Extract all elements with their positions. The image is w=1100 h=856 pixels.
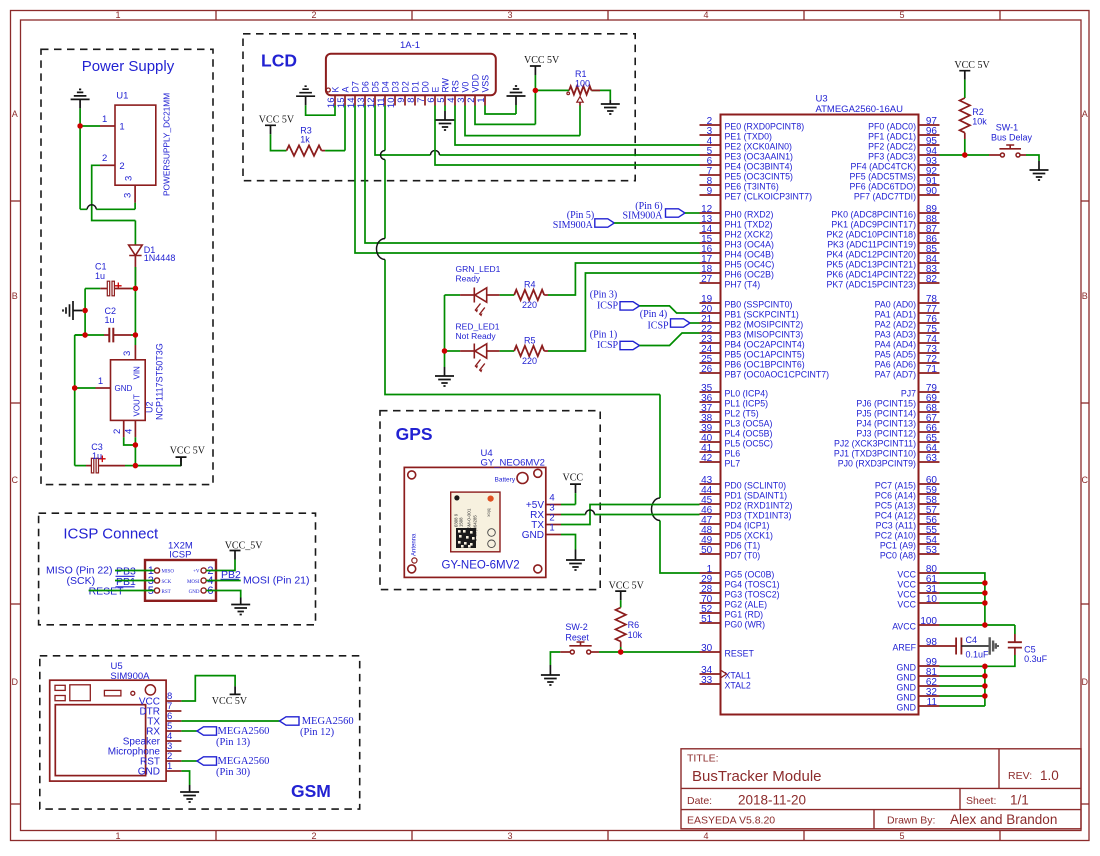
svg-text:GND: GND <box>138 766 160 777</box>
wire junction to U1 pin 1 <box>80 125 100 127</box>
svg-text:PE7 (CLKOICP3INT7): PE7 (CLKOICP3INT7) <box>725 191 813 201</box>
svg-text:PK0 (ADC8PCINT16): PK0 (ADC8PCINT16) <box>831 209 916 219</box>
svg-text:AREF: AREF <box>893 642 917 652</box>
wire GPS RX to U3 PD3 pin 46 <box>561 514 700 516</box>
wire GPS TX to U3 PD2 pin 45 <box>561 505 700 525</box>
svg-text:PK3 (ADC11PCINT19): PK3 (ADC11PCINT19) <box>827 239 916 249</box>
svg-text:RST: RST <box>162 590 171 595</box>
svg-text:PA3 (AD3): PA3 (AD3) <box>875 329 916 339</box>
svg-text:42: 42 <box>701 453 713 464</box>
wire U3 PF3 pin 94 to switch SW-1 <box>940 154 990 156</box>
svg-text:PD5 (XCK1): PD5 (XCK1) <box>725 530 773 540</box>
svg-text:PG2 (ALE): PG2 (ALE) <box>725 599 768 609</box>
svg-text:SIM900A: SIM900A <box>110 671 150 682</box>
svg-text:2: 2 <box>119 161 124 172</box>
U4 chip QR code block <box>456 528 476 548</box>
capacitor C1 1u (polarized) <box>107 281 109 296</box>
svg-text:4: 4 <box>703 10 708 20</box>
svg-text:10k: 10k <box>628 630 643 640</box>
svg-text:PJ1 (TXD3PCINT10): PJ1 (TXD3PCINT10) <box>834 448 916 458</box>
svg-text:SIM900A: SIM900A <box>553 220 594 231</box>
net flag MEGA2560 (Pin 30) <box>197 757 217 765</box>
svg-text:blox: blox <box>487 509 492 518</box>
svg-text:GND: GND <box>522 530 544 541</box>
svg-text:PF5 (ADC5TMS): PF5 (ADC5TMS) <box>850 171 917 181</box>
svg-text:PD7 (T0): PD7 (T0) <box>725 550 761 560</box>
power flag VCC 5V (power supply output) <box>176 457 187 466</box>
svg-text:NCP1117ST50T3G: NCP1117ST50T3G <box>155 343 165 420</box>
svg-text:PF0 (ADC0): PF0 (ADC0) <box>868 121 916 131</box>
svg-text:PJ3 (PCINT12): PJ3 (PCINT12) <box>856 428 916 438</box>
svg-text:XTAL1: XTAL1 <box>725 670 751 680</box>
ICSP pin 4 circle <box>201 578 206 583</box>
svg-text:ICSP: ICSP <box>169 550 191 561</box>
wire ICSP pin4 to MOSI <box>206 580 241 582</box>
wire D4 down to U3 PG5 pin 1 (long route) <box>385 106 700 574</box>
svg-text:3: 3 <box>124 176 135 181</box>
U5 board small circle <box>131 691 135 695</box>
wire C5 bottom to GND bus <box>985 655 1015 666</box>
svg-text:PG5 (OC0B): PG5 (OC0B) <box>725 569 775 579</box>
wire left rail to U2 GND <box>75 335 96 466</box>
svg-text:PB6 (OC1BPCINT6): PB6 (OC1BPCINT6) <box>725 359 805 369</box>
svg-text:PC4 (A12): PC4 (A12) <box>875 510 916 520</box>
svg-text:PB0 (SSPCINT0): PB0 (SSPCINT0) <box>725 299 793 309</box>
svg-text:5: 5 <box>899 10 904 20</box>
wire flag pin5 to chip <box>614 222 699 224</box>
U4 mounting hole top-left <box>408 471 416 479</box>
svg-text:PC0 (A8): PC0 (A8) <box>880 550 916 560</box>
U5 RF shield inner rect <box>55 705 145 776</box>
ICSP pin 5 circle <box>154 588 159 593</box>
wire RED LED anode <box>445 350 461 352</box>
junction R2/PF3/SW-1 <box>962 152 967 157</box>
U5 board small rect 1 <box>55 685 65 690</box>
svg-text:PH2 (XCK2): PH2 (XCK2) <box>725 229 773 239</box>
svg-text:1: 1 <box>115 10 120 20</box>
svg-text:30: 30 <box>701 643 713 654</box>
svg-text:PE6 (T3INT6): PE6 (T3INT6) <box>725 181 779 191</box>
svg-text:53: 53 <box>926 545 938 556</box>
GPS dashed box <box>380 411 600 590</box>
U4 mounting hole bottom-left <box>408 565 416 573</box>
wire hop RX line over TX vertical <box>586 510 595 515</box>
svg-text:RS: RS <box>450 80 460 92</box>
wire C2 left <box>85 334 104 336</box>
svg-text:PC7 (A15): PC7 (A15) <box>875 480 916 490</box>
svg-text:U2: U2 <box>145 401 155 413</box>
title block <box>681 749 1081 829</box>
svg-text:PJ7: PJ7 <box>901 388 916 398</box>
junction at U1 pin1 <box>77 123 82 128</box>
svg-text:4: 4 <box>124 429 135 434</box>
svg-text:PF6 (ADC6TDO): PF6 (ADC6TDO) <box>850 181 917 191</box>
svg-text:PG4 (TOSC1): PG4 (TOSC1) <box>725 579 780 589</box>
U2 pin 4 stub (bottom) <box>134 420 136 437</box>
svg-text:PH0 (RXD2): PH0 (RXD2) <box>725 209 774 219</box>
svg-text:10: 10 <box>926 594 938 605</box>
svg-text:R5: R5 <box>524 336 536 346</box>
U4 pin +5V <box>546 504 561 506</box>
svg-text:LCD: LCD <box>261 51 297 71</box>
svg-text:PK5 (ADC13PCINT21): PK5 (ADC13PCINT21) <box>827 259 917 269</box>
wire RW to ground <box>444 106 446 112</box>
U5 pin stubs and numbers <box>166 691 181 772</box>
ICSP pin 6 circle <box>201 588 206 593</box>
wire K to ground <box>306 105 335 115</box>
svg-text:1.0: 1.0 <box>1040 768 1059 783</box>
svg-text:PA2 (AD2): PA2 (AD2) <box>875 319 916 329</box>
wire D5 down to U3 PE3 pin 5 <box>375 106 700 156</box>
resistor R2 10k <box>960 98 970 133</box>
wire junction to U3 RESET pin 30 <box>621 651 700 653</box>
wire R6 to junction <box>620 642 622 648</box>
junction GND bus 99 <box>982 664 987 669</box>
LCD dashed box <box>243 34 635 181</box>
resistor R3 1k <box>287 145 322 155</box>
svg-text:1: 1 <box>476 98 487 103</box>
svg-text:(Pin 5): (Pin 5) <box>567 210 595 221</box>
capacitor C2 1u <box>109 328 113 343</box>
svg-text:1/1: 1/1 <box>1010 793 1029 808</box>
svg-text:VCC 5V: VCC 5V <box>609 581 645 592</box>
ground below SW-2 <box>541 665 560 685</box>
U5 board wide small rect <box>104 690 121 696</box>
ground for U1 pin 1 (inverted) <box>71 89 90 108</box>
wire RS down to U3 PE2 pin 4 <box>455 106 700 146</box>
svg-text:1u: 1u <box>105 315 115 325</box>
ICSP pin 3 circle <box>154 578 159 583</box>
svg-text:A: A <box>340 87 350 93</box>
svg-text:PH3 (OC4A): PH3 (OC4A) <box>725 239 774 249</box>
svg-text:R2: R2 <box>972 107 984 117</box>
svg-text:Sheet:: Sheet: <box>966 795 996 807</box>
svg-text:PG1 (RD): PG1 (RD) <box>725 609 764 619</box>
wire hop D4 vertical over D5 line <box>381 151 386 160</box>
svg-text:0.3uF: 0.3uF <box>1024 654 1048 664</box>
svg-text:D4: D4 <box>380 81 390 92</box>
op-amp U3 chip body ATMEGA2560-16AU <box>721 115 919 715</box>
wire C4 to ground arrow <box>961 645 989 647</box>
svg-text:Bus Delay: Bus Delay <box>991 133 1033 143</box>
wire GRN to RED LED vertical <box>444 295 446 351</box>
svg-text:PB4 (OC2APCINT4): PB4 (OC2APCINT4) <box>725 339 805 349</box>
wire C1 left to ground rail <box>85 288 100 290</box>
svg-text:PC6 (A14): PC6 (A14) <box>875 490 916 500</box>
wire U2 pin2 to pin4 join <box>124 437 136 445</box>
svg-text:ICSP: ICSP <box>597 300 619 311</box>
svg-text:PK6 (ADC14PCINT22): PK6 (ADC14PCINT22) <box>827 269 917 279</box>
svg-text:PK7 (ADC15PCINT23): PK7 (ADC15PCINT23) <box>827 279 917 289</box>
svg-text:PD6 (T1): PD6 (T1) <box>725 540 761 550</box>
svg-text:2: 2 <box>102 153 107 164</box>
svg-text:D7: D7 <box>350 81 360 92</box>
junction pins 2-4 <box>133 442 138 447</box>
svg-text:AVCC: AVCC <box>892 621 916 631</box>
U3 XTAL1 clock marker <box>721 670 727 678</box>
svg-text:PA5 (AD5): PA5 (AD5) <box>875 349 916 359</box>
wire C2 junction to U2 VIN pin 3 <box>134 335 136 345</box>
capacitor C4 0.1uF <box>956 638 961 655</box>
svg-text:PH1 (TXD2): PH1 (TXD2) <box>725 219 773 229</box>
wire flag pin1 to chip pin 22 <box>640 333 700 346</box>
ground at LCD pin RW <box>436 111 455 130</box>
wire left rail corner at C2 <box>75 334 85 336</box>
svg-text:(Pin 13): (Pin 13) <box>216 737 251 748</box>
junction C2 left <box>82 332 87 337</box>
wire hop at x660 over GPS RX/TX lines (big arc) <box>652 498 661 521</box>
svg-text:GND: GND <box>896 702 916 712</box>
power flag VCC 5V for GSM (inverted) <box>230 686 241 694</box>
U2 pin 2 stub (bottom) <box>123 420 125 437</box>
1A-1 pin names (rotated) <box>330 74 490 93</box>
capacitor C3 1u (polarized) <box>91 458 93 473</box>
wire D6 down to U3 PH3 pin 15 <box>365 106 700 244</box>
wire VSS to ground <box>485 105 516 114</box>
junction D1/C1 <box>133 286 138 291</box>
svg-text:PH4 (OC4B): PH4 (OC4B) <box>725 249 774 259</box>
wire down to C3 row <box>134 445 136 466</box>
junction GND bus 81 <box>982 673 987 678</box>
wire C2 right to junction <box>113 334 131 336</box>
svg-text:D3: D3 <box>390 81 400 92</box>
wire R4 to U3 PH5 pin 17 <box>544 294 548 296</box>
junction dots overlay <box>77 123 82 128</box>
U4 GPS chip sub-module <box>451 492 500 552</box>
ground right of R1 <box>601 100 620 114</box>
svg-text:PE1 (TXD0): PE1 (TXD0) <box>725 131 772 141</box>
U4 battery circle and label <box>517 473 528 484</box>
ICSP pin 1 circle <box>154 568 159 573</box>
svg-text:VSS: VSS <box>480 75 490 93</box>
svg-text:R6: R6 <box>628 620 640 630</box>
wire flag pin4 to chip pin 21 <box>690 322 700 324</box>
wire PB1 to ICSP pin3 <box>115 580 154 582</box>
svg-text:RESET: RESET <box>725 648 755 658</box>
svg-text:PE2 (XCK0AIN0): PE2 (XCK0AIN0) <box>725 141 793 151</box>
U4 chip orange dot <box>488 496 494 502</box>
svg-text:Power Supply: Power Supply <box>82 58 175 75</box>
U4 mounting hole top-right <box>534 469 542 477</box>
svg-text:C4: C4 <box>966 635 978 645</box>
wire R5 to U3 PH6 pin 18 <box>544 350 548 352</box>
svg-text:PF1 (ADC1): PF1 (ADC1) <box>868 131 916 141</box>
ground right of SW-1 <box>1030 161 1049 180</box>
svg-text:11: 11 <box>927 697 938 708</box>
svg-text:+V: +V <box>193 570 200 575</box>
svg-text:1N4448: 1N4448 <box>144 253 176 263</box>
svg-text:GND: GND <box>896 692 916 702</box>
svg-text:D: D <box>12 677 19 687</box>
svg-text:PC1 (A9): PC1 (A9) <box>880 540 916 550</box>
svg-text:9: 9 <box>707 186 713 197</box>
wire hop D4 vertical over PH3/PH4 lines (big arc) <box>377 239 386 260</box>
wire R3 to LCD pin A <box>322 150 326 152</box>
svg-text:PC3 (A11): PC3 (A11) <box>876 520 916 530</box>
wire SW-1 to ground <box>1020 154 1026 156</box>
svg-text:PC5 (A13): PC5 (A13) <box>875 500 916 510</box>
svg-text:VCC 5V: VCC 5V <box>524 55 560 66</box>
junction C3 right <box>133 463 138 468</box>
svg-text:PK4 (ADC12PCINT20): PK4 (ADC12PCINT20) <box>827 249 917 259</box>
svg-text:PA4 (AD4): PA4 (AD4) <box>875 339 916 349</box>
svg-text:VOUT: VOUT <box>133 394 142 416</box>
svg-text:10k: 10k <box>972 117 987 127</box>
svg-text:PL1 (ICP5): PL1 (ICP5) <box>725 398 769 408</box>
wire GRN LED anode <box>445 294 461 296</box>
wire U5 RST to MEGA2560 flag <box>181 760 197 762</box>
wire U1 pin2 down <box>92 165 136 220</box>
svg-text:PB2 (MOSIPCINT2): PB2 (MOSIPCINT2) <box>725 319 804 329</box>
svg-text:Antenna: Antenna <box>412 533 418 556</box>
net flag MEGA2560 (Pin 13) <box>197 727 217 735</box>
svg-text:(Pin 30): (Pin 30) <box>216 767 251 778</box>
svg-text:2: 2 <box>311 10 316 20</box>
svg-text:MISO: MISO <box>162 570 175 575</box>
junction VCC/R1 <box>533 88 538 93</box>
svg-text:SW-1: SW-1 <box>996 122 1018 132</box>
wire D7 down to U3 PH4 pin 16 <box>355 106 700 254</box>
wire U1 pin3 to diode D1 <box>134 221 136 246</box>
wire PB3 to ICSP pin1 <box>115 570 154 572</box>
svg-text:PL5 (OC5C): PL5 (OC5C) <box>725 438 773 448</box>
svg-text:GY-NEO-6MV2: GY-NEO-6MV2 <box>442 560 520 572</box>
svg-text:B: B <box>12 291 18 301</box>
wire RESET to ICSP pin5 <box>89 590 155 592</box>
svg-text:1u: 1u <box>95 271 105 281</box>
potentiometer R1 100 <box>569 86 591 94</box>
svg-text:BusTracker Module: BusTracker Module <box>692 768 822 785</box>
svg-text:VCC 5V: VCC 5V <box>170 446 206 457</box>
U4 pin TX <box>546 524 561 526</box>
svg-text:PJ6 (PCINT15): PJ6 (PCINT15) <box>856 398 916 408</box>
svg-text:PD0 (SCLINT0): PD0 (SCLINT0) <box>725 480 787 490</box>
wire D1 to C1 junction <box>134 256 136 289</box>
wire U5 TX to MEGA2560 flag <box>181 720 279 722</box>
switch SW-2 pushbutton <box>570 650 574 654</box>
switch SW-1 pushbutton <box>1000 153 1004 157</box>
resistor R6 10k <box>616 608 626 642</box>
svg-text:PH7 (T4): PH7 (T4) <box>725 279 761 289</box>
svg-text:REV:: REV: <box>1008 770 1032 782</box>
wire D1-C1 junction down to C2 junction <box>134 289 136 336</box>
U5 board medium rect <box>70 685 91 701</box>
wire SW-2 left to ground <box>560 651 570 653</box>
junction GND bus 32 <box>982 693 987 698</box>
net flag MEGA2560 (Pin 12) <box>280 717 300 725</box>
svg-text:Alex and Brandon: Alex and Brandon <box>950 812 1057 827</box>
svg-text:PL4 (OC5B): PL4 (OC5B) <box>725 428 773 438</box>
wire ground rail down to U1 pin3 row with hop <box>80 126 135 209</box>
1A-1 pin stubs <box>335 95 485 105</box>
svg-text:PF7 (ADC7TDI): PF7 (ADC7TDI) <box>854 191 916 201</box>
module U5 SIM900A board outline <box>50 680 166 781</box>
junction GND bus 62 <box>982 683 987 688</box>
svg-text:Battery: Battery <box>495 477 516 484</box>
svg-text:Date:: Date: <box>687 795 712 807</box>
svg-text:GRN_LED1: GRN_LED1 <box>456 264 501 274</box>
svg-text:26: 26 <box>701 364 713 375</box>
svg-text:RESET: RESET <box>89 586 125 598</box>
svg-text:1A-1: 1A-1 <box>400 40 420 51</box>
wire SW-2 right to junction <box>591 651 599 653</box>
svg-text:PL0 (ICP4): PL0 (ICP4) <box>725 388 769 398</box>
svg-text:(Pin 3): (Pin 3) <box>590 290 618 301</box>
svg-text:GPS: GPS <box>396 424 433 444</box>
svg-text:PG0 (WR): PG0 (WR) <box>725 619 766 629</box>
svg-text:51: 51 <box>701 614 713 625</box>
connector 1A-1 body (LCD header) <box>326 54 496 96</box>
svg-text:82: 82 <box>926 274 938 285</box>
wire R2 to junction <box>964 133 966 139</box>
svg-text:PE4 (OC3BINT4): PE4 (OC3BINT4) <box>725 161 793 171</box>
resistor R4 220 <box>514 290 544 300</box>
svg-text:(Pin 1): (Pin 1) <box>590 329 618 340</box>
wire VCC pins bus <box>940 573 985 625</box>
wire RED LED cathode to R5 <box>487 350 500 352</box>
svg-text:(Pin 12): (Pin 12) <box>300 727 335 738</box>
svg-text:GND: GND <box>115 384 133 393</box>
svg-text:VCC: VCC <box>563 473 584 484</box>
svg-text:PL3 (OC5A): PL3 (OC5A) <box>725 418 773 428</box>
svg-text:2: 2 <box>311 831 316 841</box>
svg-text:Ready: Ready <box>456 274 481 284</box>
svg-text:PB7 (OC0AOC1CPCINT7): PB7 (OC0AOC1CPCINT7) <box>725 369 830 379</box>
svg-text:GND: GND <box>896 682 916 692</box>
wire VCC_5V to ICSP pin2 <box>206 560 235 571</box>
svg-text:PD2 (RXD1INT2): PD2 (RXD1INT2) <box>725 500 793 510</box>
svg-text:PE3 (OC3AAIN1): PE3 (OC3AAIN1) <box>725 151 794 161</box>
svg-text:PL7: PL7 <box>725 458 741 468</box>
svg-text:1: 1 <box>549 523 554 534</box>
svg-text:VCC: VCC <box>897 589 916 599</box>
resistor R5 220 <box>514 346 544 356</box>
svg-text:3: 3 <box>507 831 512 841</box>
wire VCC junction to R1 <box>535 89 569 91</box>
wire GND pins bus <box>940 666 985 706</box>
svg-text:ICSP: ICSP <box>597 340 619 351</box>
svg-text:A: A <box>12 109 18 119</box>
svg-text:3: 3 <box>123 193 134 198</box>
svg-text:D0: D0 <box>420 81 430 92</box>
svg-text:(Pin 4): (Pin 4) <box>640 309 668 320</box>
svg-text:PL2 (T5): PL2 (T5) <box>725 408 759 418</box>
Power Supply dashed box <box>41 49 213 484</box>
ICSP Connect dashed box <box>39 513 316 625</box>
svg-text:VCC: VCC <box>897 599 916 609</box>
svg-text:98: 98 <box>926 637 938 648</box>
GSM dashed box <box>40 656 360 809</box>
svg-text:SCK: SCK <box>162 580 172 585</box>
wire U5 VCC to VCC 5V flag <box>181 676 235 701</box>
component U1 POWERSUPPLY_DC21MM body <box>115 105 156 185</box>
svg-text:TITLE:: TITLE: <box>687 753 719 765</box>
junction VCC bus 10 <box>982 600 987 605</box>
LED RED_LED1 symbol <box>474 344 486 359</box>
svg-text:U1: U1 <box>116 91 128 102</box>
svg-text:C: C <box>12 475 19 485</box>
svg-text:1: 1 <box>115 831 120 841</box>
U4 chip black dot <box>454 495 459 500</box>
svg-text:1: 1 <box>119 122 124 133</box>
svg-text:GND: GND <box>896 662 916 672</box>
svg-text:VCC 5V: VCC 5V <box>954 60 990 71</box>
svg-text:GY_NEO6MV2: GY_NEO6MV2 <box>481 458 545 469</box>
svg-text:E: E <box>430 87 440 93</box>
svg-text:PE0 (RXD0PCINT8): PE0 (RXD0PCINT8) <box>725 121 805 131</box>
svg-text:1508: 1508 <box>459 517 464 527</box>
svg-text:MEGA2560: MEGA2560 <box>218 756 270 767</box>
